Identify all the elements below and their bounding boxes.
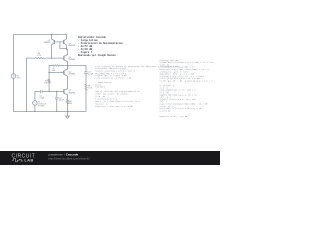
transistor Q1 base bar: [63, 89, 65, 93]
wire top supply rail: [14, 34, 67, 36]
node C2 top: [56, 91, 57, 92]
svg-text:2N3904: 2N3904: [69, 74, 76, 76]
wire RE to rail: [67, 104, 69, 112]
wire ground rail: [14, 110, 87, 112]
svg-text:Realizado por Joseph Noveno: Realizado por Joseph Noveno: [78, 54, 116, 57]
node supply rail Q3: [51, 34, 52, 35]
transistor Q2 middle base bar: [63, 71, 65, 75]
transistor Q4 base bar: [53, 40, 55, 44]
svg-text:4.7k: 4.7k: [37, 55, 41, 57]
wire Q3 base / R4 run: [26, 57, 63, 59]
svg-text:A.(1/B dB: A.(1/B dB: [160, 109, 172, 112]
node rail R4: [26, 111, 27, 112]
svg-text:2N3906: 2N3906: [44, 42, 51, 44]
wire V1 stub lower: [34, 105, 36, 111]
node Q2 base: [48, 72, 49, 73]
transistor Q3 base bar: [63, 56, 65, 60]
svg-text:1.0k: 1.0k: [52, 70, 56, 72]
wire Q2 middle base run: [49, 72, 64, 74]
source V2 plus minus glyph: [13, 74, 15, 77]
svg-text:10 µF: 10 µF: [59, 99, 65, 101]
footer logo CIRCUIT: [12, 154, 36, 163]
resistor R4: [35, 57, 43, 58]
transistor Q3 (cascode top): [64, 55, 68, 66]
ground stub: [67, 111, 69, 116]
svg-text:1.0k: 1.0k: [88, 87, 92, 89]
note column B: [160, 59, 215, 118]
svg-text:http://www.circuitlab.com/c/ku: http://www.circuitlab.com/c/kubn32: [49, 157, 91, 161]
transistor Q4 (mirror left): [51, 35, 54, 59]
transistor Q5 base bar: [63, 40, 65, 44]
node cascode mid: [67, 65, 68, 66]
svg-text:2N3904: 2N3904: [69, 59, 76, 61]
wire R2 branch vertical: [48, 66, 50, 92]
wire cascode mid node vertical upper: [67, 66, 69, 70]
svg-text:(C (b. Q.A (b. ( b). Q.Q/A( A(: (C (b. Q.A (b. ( b). Q.Q/A( A(+A.A V = 5…: [160, 80, 214, 83]
transistor Q1: [64, 89, 68, 95]
svg-text:10 µF: 10 µF: [88, 74, 94, 76]
capacitor C3: [84, 72, 87, 74]
source V1: [33, 101, 38, 106]
resistor R1: [53, 65, 60, 67]
svg-text:10k: 10k: [44, 82, 47, 84]
capacitor C1: [40, 90, 42, 93]
svg-text:j=0.05/8: j=0.05/8: [95, 86, 105, 89]
voltage source V2: [11, 74, 16, 79]
source V1 sine glyph: [34, 102, 36, 103]
node rail C2: [56, 111, 57, 112]
svg-text:Para (Av)=Vo/Vi => (R7)/1.0 dB: Para (Av)=Vo/Vi => (R7)/1.0 dB: [95, 76, 132, 79]
wire left rail lower: [13, 78, 15, 111]
svg-text:100: 100: [69, 103, 72, 105]
svg-text:josephnvrn / Cascode: josephnvrn / Cascode: [48, 152, 79, 156]
wire input signal run: [35, 90, 64, 92]
resistor RL: [85, 84, 87, 90]
title note block: [78, 36, 123, 57]
wire RL to rail: [85, 90, 87, 111]
wire left rail upper: [13, 35, 15, 74]
node rail V1: [34, 111, 35, 112]
node rail RE: [67, 111, 68, 112]
resistor R2: [48, 79, 50, 83]
node Q3 base: [51, 57, 52, 58]
node mirror tie: [66, 48, 67, 49]
footer bar: [0, 151, 220, 165]
wire C2 branch: [56, 91, 58, 111]
footer title line: [48, 152, 91, 160]
capacitor C2: [55, 97, 58, 99]
wire Q5 collector to Q3 collector: [67, 50, 68, 55]
wire Q1 emitter: [67, 95, 69, 100]
wire C3 to RL: [85, 74, 87, 84]
wire R4 branch vertical: [25, 58, 27, 111]
transistor Q5 (mirror right): [64, 35, 67, 50]
svg-text:2N3904: 2N3904: [69, 92, 76, 94]
wire V1 stub upper: [34, 91, 36, 100]
svg-text:2N3906: 2N3906: [68, 45, 75, 47]
svg-text:RTH=-(B(1.)-(1a+(VB)+(1.B.(B d: RTH=-(B(1.)-(1a+(VB)+(1.B.(B dB: [95, 105, 133, 108]
svg-text:10 µF: 10 µF: [39, 97, 45, 99]
wire R1 run: [49, 65, 86, 67]
svg-text:LAB: LAB: [24, 158, 33, 163]
footer logo waveform: [12, 159, 23, 162]
svg-text:Consulta Total): (VS dB: Consulta Total): (VS dB: [160, 115, 188, 118]
wire output branch top: [85, 66, 87, 72]
svg-text:1.0 kHz: 1.0 kHz: [38, 105, 44, 107]
ground symbol: [66, 116, 70, 118]
transistor Q2 (cascode middle): [64, 69, 68, 89]
resistor RE: [67, 99, 69, 103]
node R2 base: [48, 91, 49, 92]
note column A: [95, 65, 178, 108]
wire mirror base tie: [54, 42, 66, 49]
